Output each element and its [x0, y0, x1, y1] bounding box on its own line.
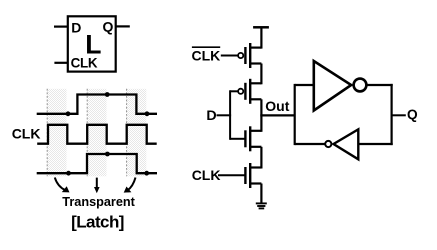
band 3 dotted edge: [126, 89, 128, 177]
wire U1 output: [368, 84, 393, 86]
arrow left: [55, 178, 70, 193]
svg-text:CLK: CLK: [71, 55, 98, 70]
waveform D: [37, 95, 157, 114]
waveform CLK: [37, 125, 157, 144]
svg-text:[Latch]: [Latch]: [71, 213, 124, 232]
svg-text:CLK: CLK: [192, 167, 221, 183]
svg-text:Transparent: Transparent: [62, 195, 135, 209]
wire Q tap: [392, 114, 406, 116]
svg-text:Out: Out: [265, 98, 289, 114]
wire VDD to M1 drain: [260, 27, 262, 48]
arrow right: [124, 178, 136, 193]
wire D bus to M3 gate: [230, 138, 245, 140]
waveform D sample dot 3: [145, 111, 150, 116]
svg-text:D: D: [71, 19, 81, 35]
waveform Q sample dot 1: [66, 171, 71, 176]
transparent band 2: [87, 89, 107, 177]
wire CLK to M4 gate: [218, 174, 245, 176]
waveform Q: [37, 154, 157, 173]
wire Out to inverter input (left loop vertical): [294, 84, 296, 145]
svg-text:Q: Q: [103, 18, 114, 34]
transistor M3 NMOS D: [245, 126, 261, 151]
band 1 dotted edge: [46, 89, 48, 177]
transistor M1 PMOS CLKbar: [238, 43, 261, 68]
wire U2 output to left vertical: [295, 143, 325, 145]
svg-text:CLK: CLK: [192, 48, 221, 64]
waveform D sample dot 2: [105, 92, 110, 97]
svg-text:D: D: [206, 108, 216, 124]
wire right vertical: [391, 84, 393, 145]
wire Q output: [116, 25, 130, 27]
wire CLKbar to M1 gate: [221, 55, 238, 57]
transistor M2 PMOS D: [238, 79, 261, 104]
transistor M4 NMOS CLK: [245, 163, 261, 188]
wire U2 input: [358, 143, 392, 145]
band 2 dotted edge: [86, 89, 88, 177]
inverter U1: [314, 61, 367, 111]
wire M4 source to ground: [260, 184, 262, 204]
waveform D sample dot 1: [66, 111, 71, 116]
inverter U2 feedback: [325, 129, 358, 159]
waveform Q sample dot 2: [105, 152, 110, 157]
svg-text:CLK: CLK: [12, 126, 41, 142]
wire M2 gate to D bus: [230, 90, 238, 92]
wire U1 input: [295, 84, 314, 86]
ground: [256, 203, 267, 208]
wire CLK input: [54, 62, 67, 64]
wire M2 source to M3 drain: [260, 99, 262, 132]
waveform Q sample dot 3: [144, 171, 149, 176]
transparent band 1: [47, 89, 67, 177]
svg-text:Q: Q: [407, 107, 418, 122]
arrow middle: [94, 178, 100, 194]
transparent band 3: [126, 89, 146, 177]
VDD rail: [253, 26, 269, 29]
node Out wire: [260, 114, 294, 116]
wire M1 source to M2 drain: [260, 64, 262, 85]
wire D input: [54, 26, 68, 28]
latch symbol L1 box: [68, 16, 116, 71]
label CLKbar: [192, 47, 221, 63]
wire D input: [217, 114, 232, 116]
wire D bus: [229, 90, 231, 140]
wire M3 source to M4 drain: [260, 147, 262, 169]
